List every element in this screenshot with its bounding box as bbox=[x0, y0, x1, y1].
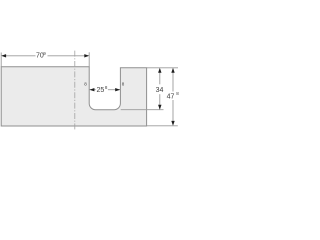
extension line: notch left wall extended up bbox=[88, 52, 90, 67]
dimension 70(9) line bbox=[2, 55, 35, 57]
centerline bbox=[74, 51, 76, 131]
arrow left of 70 bbox=[1, 54, 6, 57]
svg-text:34: 34 bbox=[156, 87, 164, 94]
arrow at notch right wall bbox=[115, 88, 120, 91]
arrow 34 bottom bbox=[158, 105, 161, 110]
dimension 25(8) line inside notch bbox=[89, 89, 96, 91]
arrow 47 bottom bbox=[171, 121, 174, 126]
svg-text:25: 25 bbox=[97, 87, 105, 94]
dimension 47(8) line bbox=[172, 69, 174, 92]
arrow 34 top bbox=[158, 68, 161, 73]
extension line: notch bottom extended right bbox=[121, 109, 164, 111]
dimension 34 line bbox=[159, 69, 161, 85]
extension line: slab left edge extended up bbox=[0, 53, 2, 67]
svg-text:47: 47 bbox=[167, 94, 175, 101]
extension line: top right, from slab corner bbox=[147, 67, 178, 69]
arrow 47 top bbox=[171, 68, 174, 73]
arrow right of 70 bbox=[84, 54, 89, 57]
slab with U-cutout (part outline, gray fill) bbox=[1, 67, 146, 126]
extension line: slab bottom extended right bbox=[147, 125, 178, 127]
arrow at notch left wall bbox=[90, 88, 95, 91]
